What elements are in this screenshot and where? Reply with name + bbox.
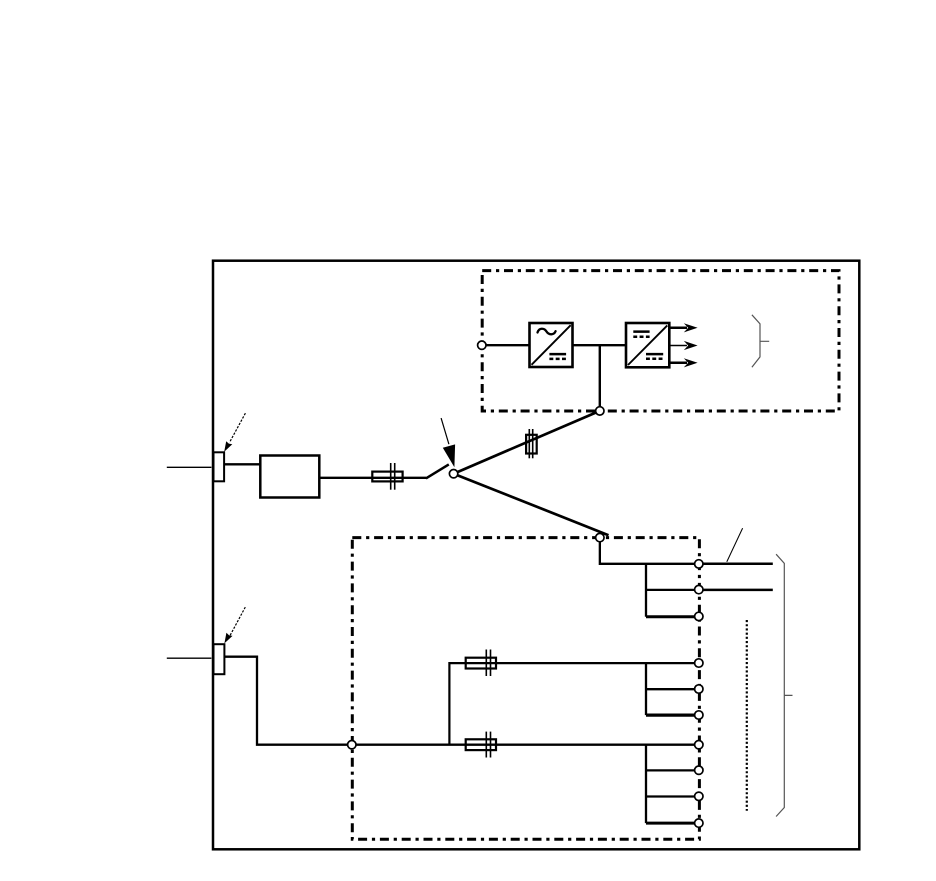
node A (PSU input) xyxy=(478,341,486,349)
output terminal 10 xyxy=(695,819,703,827)
output terminal 9 xyxy=(695,792,703,800)
annotation arrow to terminal X2 xyxy=(224,607,245,643)
output terminal 6 xyxy=(695,711,703,719)
output arrow 1 xyxy=(669,323,697,332)
output terminal 3 xyxy=(695,612,703,620)
wire: U1 to U2 with branch down to node B xyxy=(573,345,627,409)
output terminal 1 xyxy=(695,560,703,568)
group3 branch wires xyxy=(646,745,699,823)
AC/DC converter U1 xyxy=(530,323,573,367)
output arrow 3 xyxy=(669,358,697,367)
output terminal 2 xyxy=(695,585,703,593)
output terminal 8 xyxy=(695,766,703,774)
node C (distribution feed) xyxy=(596,533,604,541)
external feed line (mains input) xyxy=(167,466,212,468)
wire: X2 to distribution bus xyxy=(224,657,698,745)
distribution unit boundary (dash-dot box) xyxy=(352,538,699,840)
dotted separator line xyxy=(746,620,748,811)
annotation arrow to terminal X1 xyxy=(224,413,245,452)
node B (PSU feed) xyxy=(596,407,604,415)
bold branch wire group2 xyxy=(646,713,699,716)
bold branch wire group1 xyxy=(646,615,699,618)
annotation arrow to main switch xyxy=(441,418,455,467)
terminal X1 xyxy=(214,452,225,481)
line filter box K1 xyxy=(260,456,319,498)
DC/DC converter U2 xyxy=(626,323,669,367)
small brace (PSU outputs) xyxy=(752,315,769,367)
bold branch wire group3 xyxy=(646,822,699,825)
node D (bus entry) xyxy=(348,741,356,749)
wire: X1 to filter box xyxy=(224,463,260,465)
power supply unit boundary (dash-dot box) xyxy=(482,271,839,411)
switch node S xyxy=(449,470,457,478)
wire: switch node to node C (lower diagonal) xyxy=(454,474,609,536)
output terminal 5 xyxy=(695,685,703,693)
fuse F2 with connector marks (on diagonal) xyxy=(526,429,537,458)
wire: node A to converter U1 xyxy=(482,344,530,346)
wire: riser and group2 feed xyxy=(449,663,698,745)
main switch blade xyxy=(426,464,449,478)
wire: K1 to fuse F1 and switch xyxy=(319,477,426,479)
enclosure cabinet outline xyxy=(213,261,859,850)
external output line 2 xyxy=(703,589,773,592)
fuse F3 with connector marks xyxy=(466,650,496,677)
fuse F4 with connector marks xyxy=(466,732,496,758)
fuse F1 with connector marks xyxy=(372,463,402,490)
large brace (distribution outputs) xyxy=(776,554,792,816)
group2 branch wires xyxy=(646,663,699,715)
terminal X2 xyxy=(214,644,225,674)
wire: switch node to node B (upper diagonal) xyxy=(454,411,600,474)
output terminal 7 xyxy=(695,741,703,749)
output terminal 4 xyxy=(695,659,703,667)
wire: node C drop into distribution unit xyxy=(600,538,699,617)
external feed line (secondary) xyxy=(167,657,212,659)
annotation line to output lines xyxy=(727,528,743,562)
external output line 1 xyxy=(703,563,773,566)
output arrow 2 xyxy=(669,341,697,350)
